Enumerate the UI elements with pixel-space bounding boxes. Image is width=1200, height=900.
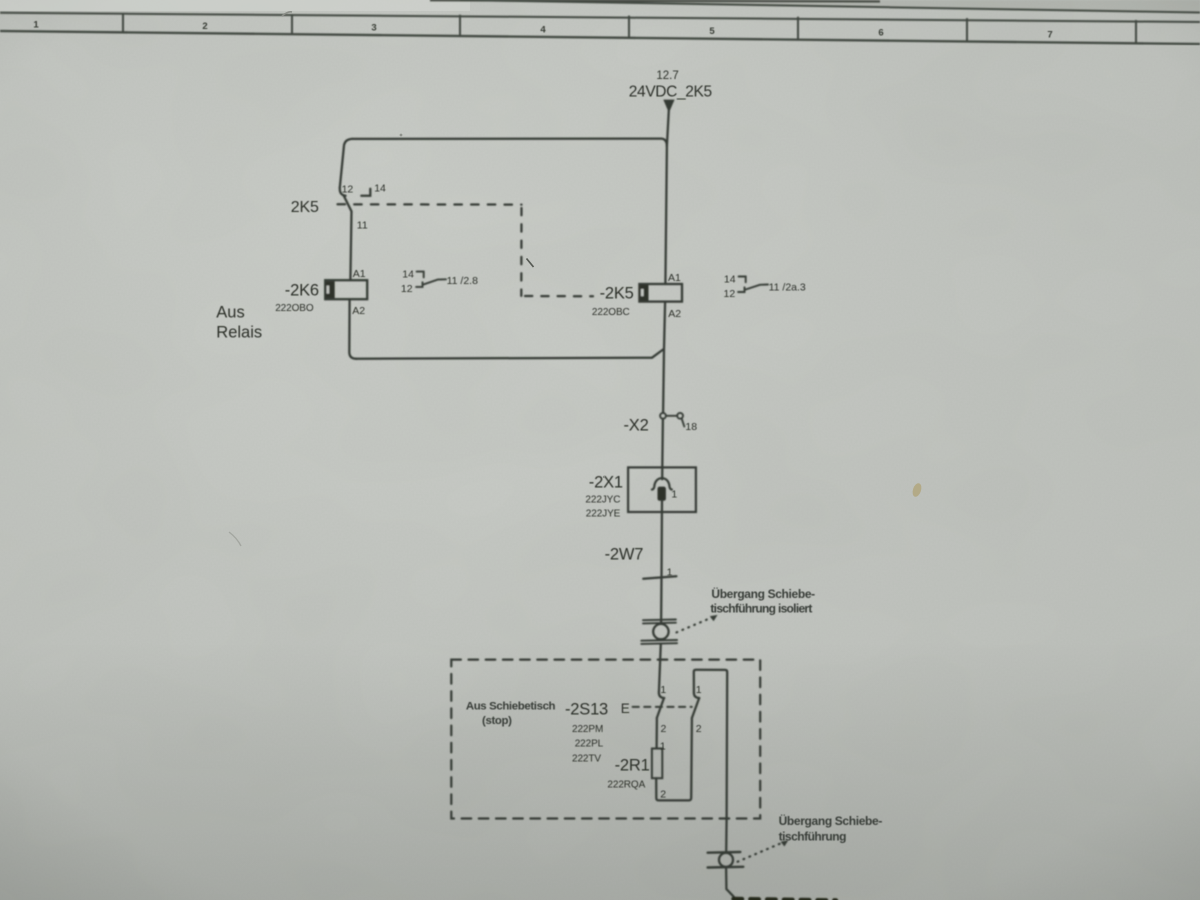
ruler tick 7 (1135, 20, 1137, 43)
ruler band bottom line (0, 31, 1200, 44)
svg-text:14: 14 (402, 269, 414, 281)
resistor -2R1 box (652, 749, 662, 779)
svg-text:18: 18 (685, 421, 697, 433)
svg-text:12: 12 (342, 183, 354, 195)
svg-text:-2R1: -2R1 (615, 757, 650, 775)
HEADER_RULER (0, 0, 1200, 44)
svg-text:E: E (621, 701, 630, 716)
svg-text:A2: A2 (668, 308, 681, 320)
ruler tick 2 (291, 14, 293, 35)
header numbers (33, 20, 1052, 41)
crossref left hook14 (417, 272, 424, 278)
contact 2K5 14-terminal hook (361, 189, 370, 196)
crossref right hook12 and leader (738, 285, 768, 293)
switch2 pin1 hook (694, 692, 699, 698)
svg-text:A2: A2 (352, 305, 365, 317)
wire 2K5contact to K6 coil (350, 211, 351, 280)
svg-text:tischführung: tischführung (779, 830, 846, 844)
svg-text:7: 7 (1047, 30, 1052, 41)
svg-text:11: 11 (357, 219, 368, 231)
svg-text:222PL: 222PL (575, 738, 604, 749)
scratch (282, 12, 292, 16)
svg-text:2: 2 (660, 788, 666, 800)
svg-text:Relais: Relais (216, 324, 262, 342)
svg-text:2K5: 2K5 (291, 199, 319, 216)
ruler tick 3 (459, 15, 461, 37)
connector -2X1 plug pin (658, 487, 666, 501)
ruler tick 5 (797, 17, 799, 40)
connector -2X1 socket arc (652, 478, 672, 489)
contact 2K5 blade (344, 195, 352, 211)
wire trunk upper (665, 111, 668, 285)
dashed enclosure box (451, 660, 760, 819)
wire R1 bottom loop to switch2 (656, 718, 692, 801)
wire isolator2 down (726, 868, 734, 897)
dot (400, 134, 403, 137)
isolator2 upper bar (708, 851, 741, 854)
svg-text:3: 3 (371, 23, 376, 34)
switch1 blade (657, 698, 664, 718)
scratch2 (229, 532, 241, 546)
svg-text:-X2: -X2 (624, 417, 649, 435)
wire left branch vertical (340, 139, 353, 188)
isolator1 upper bars (643, 620, 676, 624)
supply arrow 24VDC_2K5 (663, 100, 674, 113)
coil -2K6 black block (326, 281, 335, 298)
wire switch1 to R1 (655, 718, 658, 749)
svg-text:12.7: 12.7 (656, 70, 678, 82)
svg-text:12: 12 (724, 288, 736, 300)
mech link dashed bottom (525, 295, 593, 298)
svg-text:12: 12 (401, 283, 413, 295)
isolator1 circle (653, 624, 668, 639)
wire K6 A2 down (349, 299, 356, 358)
svg-text:-2K6: -2K6 (285, 281, 319, 299)
svg-text:A1: A1 (668, 272, 681, 284)
leader1 dotted (677, 617, 715, 633)
svg-text:5: 5 (709, 26, 715, 37)
coil -2K5 slot (641, 289, 644, 296)
svg-text:4: 4 (540, 25, 546, 36)
svg-text:Übergang Schiebe-: Übergang Schiebe- (779, 813, 883, 828)
ruler tick 1 (122, 13, 124, 33)
coil -2K6 box (325, 280, 367, 299)
leader2 dotted (738, 843, 783, 862)
svg-text:222TV: 222TV (572, 753, 601, 764)
wire switch2 top loop and right drop (694, 670, 727, 852)
terminal -X2 circle left (660, 413, 666, 419)
sheet edge shading top right (455, 0, 1200, 13)
scratch3 (527, 259, 534, 268)
isolator2 lower bar (708, 866, 744, 869)
isolator2 circle (719, 853, 733, 867)
svg-text:11 /2a.3: 11 /2a.3 (769, 281, 806, 293)
light sheet strip top-left (0, 0, 470, 11)
svg-text:Übergang Schiebe-: Übergang Schiebe- (711, 586, 815, 601)
terminal -X2 circle right (677, 413, 683, 419)
dot2 (603, 476, 605, 478)
svg-text:222PM: 222PM (572, 724, 603, 735)
svg-text:(stop): (stop) (482, 715, 512, 727)
svg-text:222JYC: 222JYC (585, 494, 620, 505)
svg-text:2: 2 (696, 723, 702, 735)
speck (911, 482, 923, 498)
svg-text:14: 14 (374, 183, 386, 195)
switch2 blade (692, 698, 699, 718)
terminal -X2 bridge (666, 415, 677, 417)
coil -2K5 box (639, 284, 682, 302)
wire W7 to isolator1 (660, 577, 663, 624)
ruler tick 4 (628, 16, 630, 39)
terminal -X2 pin18 tail (682, 418, 685, 426)
switch1 pin1 hook (659, 692, 664, 698)
sheet edge line (460, 0, 1200, 13)
svg-text:222OBC: 222OBC (592, 307, 630, 318)
wire X2 to 2X1 (661, 419, 664, 467)
svg-text:-2X1: -2X1 (589, 474, 623, 492)
mech link dashed horizontal (338, 203, 522, 206)
crossref left hook12 and leader (416, 279, 446, 287)
artifacts (229, 12, 923, 546)
cable -2W7 core tick (643, 576, 676, 579)
svg-text:1: 1 (696, 684, 702, 696)
svg-text:1: 1 (667, 567, 673, 579)
bottom heavy dashed edge (734, 899, 837, 900)
ruler tick 6 (966, 18, 968, 41)
svg-text:24VDC_2K5: 24VDC_2K5 (629, 84, 712, 101)
svg-text:222JYE: 222JYE (586, 508, 621, 519)
svg-text:Aus Schiebetisch: Aus Schiebetisch (466, 701, 556, 713)
svg-text:14: 14 (724, 273, 736, 285)
svg-text:2: 2 (661, 723, 667, 735)
SCHEMATIC_INK (325, 100, 836, 900)
E actuation dashed line (633, 706, 692, 708)
wire 2X1 to W7 tick (660, 501, 663, 577)
crossref right hook14 (739, 277, 746, 283)
leader1 arrowhead (710, 615, 718, 621)
ruler band top line (0, 13, 1200, 22)
wire branch top horizontal (352, 139, 667, 146)
connector -2X1 box (628, 467, 696, 512)
svg-text:Aus: Aus (216, 303, 244, 321)
svg-text:222RQA: 222RQA (607, 779, 645, 790)
SCHEMATIC_TEXT (216, 70, 882, 844)
svg-text:1: 1 (660, 741, 666, 753)
svg-text:1: 1 (660, 684, 666, 696)
leader2 arrowhead (781, 840, 789, 846)
svg-text:tischführung isoliert: tischführung isoliert (710, 601, 812, 615)
wire isolator1 to S13 (659, 644, 661, 692)
svg-text:A1: A1 (353, 268, 366, 280)
coil -2K5 black block (640, 285, 649, 301)
coil -2K6 slot (327, 286, 330, 294)
svg-text:1: 1 (33, 20, 39, 31)
svg-text:11 /2.8: 11 /2.8 (447, 275, 478, 287)
wire bottom link horizontal (356, 349, 663, 359)
table edge sliver (430, 0, 880, 1)
contact 2K5 12-terminal hook (340, 188, 346, 196)
svg-text:2: 2 (202, 21, 207, 32)
svg-text:-2S13: -2S13 (565, 700, 608, 718)
isolator1 lower bars (641, 640, 677, 644)
mech link dashed vertical (520, 208, 522, 296)
wire K5 A2 down to X2 (663, 302, 665, 413)
svg-text:6: 6 (878, 28, 883, 39)
wire into socket (661, 467, 663, 479)
svg-text:1: 1 (671, 488, 677, 500)
svg-text:-2K5: -2K5 (600, 285, 634, 303)
svg-text:-2W7: -2W7 (605, 546, 644, 564)
svg-text:222OBO: 222OBO (275, 303, 314, 314)
